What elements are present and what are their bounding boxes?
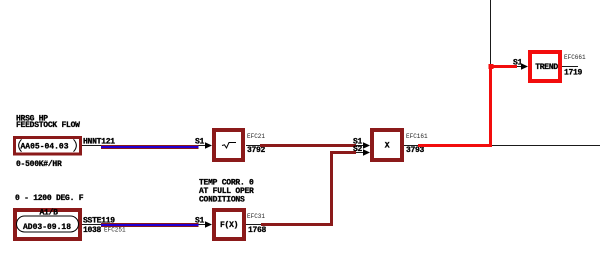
- svg-text:EFC161: EFC161: [406, 133, 428, 140]
- op-block multiplier X U2: [372, 130, 402, 160]
- wire: leader into sqrt input: [199, 145, 207, 147]
- wire: leader into F(X): [199, 224, 207, 226]
- wire: sqrt output leader: [246, 145, 260, 147]
- op-block function generator F(X) U3: [214, 210, 244, 239]
- arrow into TREND: [521, 63, 528, 69]
- block TREND: [530, 52, 560, 81]
- svg-text:AD03-09.18: AD03-09.18: [23, 223, 71, 232]
- note: TEMP CORR. 0 AT FULL OPER CONDITIONS: [199, 179, 254, 205]
- svg-text:1768: 1768: [248, 226, 267, 235]
- svg-text:EFC21: EFC21: [247, 133, 265, 140]
- wire: leader into TREND: [517, 66, 522, 68]
- svg-text:0-500K#/HR: 0-500K#/HR: [16, 160, 62, 169]
- wire: leader into X S1: [356, 145, 364, 147]
- arrow into sqrt input: [205, 142, 212, 148]
- wire: F(X) to X block S2 (maroon riser): [261, 153, 356, 225]
- wire: off-page leader to right edge: [491, 145, 600, 147]
- svg-text:EFC31: EFC31: [247, 213, 265, 220]
- note: HRSG HP FEEDSTOCK FLOW: [16, 115, 80, 131]
- wire: TREND output stub: [562, 66, 578, 68]
- wire: X output to junction (bright red): [418, 67, 517, 146]
- svg-text:EFC661: EFC661: [564, 54, 586, 61]
- arrow into F(X): [205, 221, 212, 227]
- arrow into X S1: [363, 142, 370, 148]
- wire: leader into X S2: [356, 152, 364, 154]
- svg-text:AA05-04.03: AA05-04.03: [21, 143, 69, 152]
- svg-text:X: X: [385, 142, 390, 151]
- svg-text:FEEDSTOCK FLOW: FEEDSTOCK FLOW: [16, 121, 80, 130]
- svg-text:0 - 1200 DEG. F: 0 - 1200 DEG. F: [15, 194, 84, 203]
- wire: analog signal AA05 to sqrt (maroon/blue): [101, 145, 199, 149]
- arrow into X S2: [363, 149, 370, 155]
- svg-text:F(X): F(X): [220, 221, 238, 230]
- svg-text:EFC251: EFC251: [104, 227, 126, 234]
- svg-text:3793: 3793: [406, 146, 425, 155]
- svg-text:CONDITIONS: CONDITIONS: [199, 196, 245, 205]
- svg-text:1719: 1719: [564, 69, 583, 78]
- wire: capsule AA05 to sqrt block (leader): [82, 145, 101, 147]
- junction node: [489, 64, 494, 69]
- wire: F(X) output leader: [246, 224, 261, 226]
- svg-text:1038: 1038: [83, 226, 102, 235]
- signal source capsule AD03-09.18: [15, 209, 80, 240]
- wire: capsule AD03 to F(X) (leader): [82, 224, 101, 226]
- wire: analog signal AD03 to F(X) (maroon/blue): [101, 223, 199, 227]
- wire: off-page leader to top edge: [490, 0, 492, 64]
- svg-text:TREND: TREND: [535, 63, 558, 72]
- wire: sqrt to X block S1 (maroon): [260, 144, 356, 147]
- svg-text:3792: 3792: [247, 146, 266, 155]
- signal source capsule AA05-04.03: [15, 138, 81, 155]
- op-block sqrt U1: [214, 130, 243, 160]
- wire: X output leader: [404, 145, 418, 147]
